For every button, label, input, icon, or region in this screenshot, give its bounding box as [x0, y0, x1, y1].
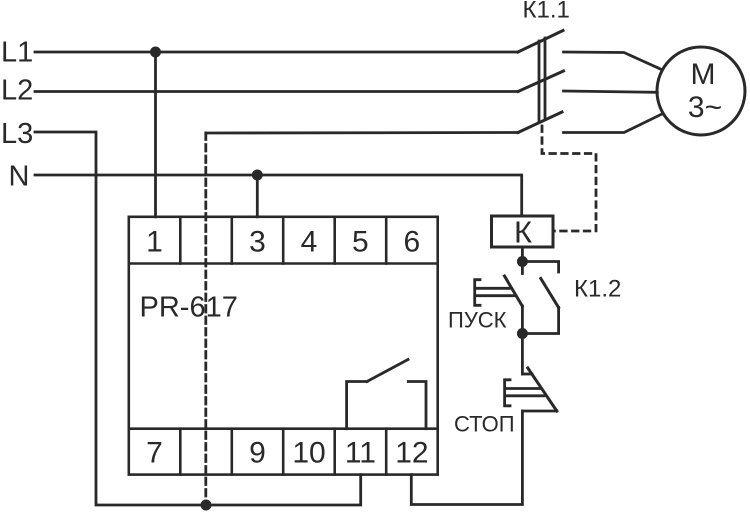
wire pole 2 to motor	[564, 91, 658, 92]
terminal 3	[249, 217, 283, 264]
svg-text:К1.2: К1.2	[574, 276, 621, 303]
wire СТОП down to bottom	[411, 411, 522, 505]
relay PR-617 label	[140, 292, 238, 324]
svg-text:К: К	[514, 215, 532, 250]
svg-text:10: 10	[292, 437, 325, 470]
svg-text:L3: L3	[1, 118, 33, 150]
svg-text:СТОП: СТОП	[454, 412, 515, 437]
terminal 4	[301, 217, 335, 264]
contactor K1.1 pole 1 blade	[518, 31, 563, 53]
svg-text:3~: 3~	[688, 91, 722, 124]
wire pole 3 to motor	[564, 114, 664, 133]
wire node B to СТОП	[521, 334, 524, 375]
coil K letter	[514, 215, 532, 250]
terminal 7	[146, 429, 180, 475]
contact K1.2 top wire	[522, 262, 558, 273]
pushbutton ПУСК blade	[505, 276, 523, 306]
svg-text:N: N	[9, 161, 30, 193]
terminal 6	[404, 226, 421, 259]
contactor K1.1 label	[523, 0, 570, 24]
relay PR-617 outer box	[129, 217, 438, 475]
wire L2	[35, 90, 518, 93]
svg-text:ПУСК: ПУСК	[448, 308, 507, 333]
relay bottom terminal row divider	[129, 427, 438, 430]
net label L2	[1, 75, 33, 107]
dashed link K1.1 to coil K	[542, 126, 596, 231]
node junction bottom	[201, 500, 212, 511]
svg-text:3: 3	[249, 226, 266, 259]
node junction on L1	[150, 47, 161, 58]
contact K1.2 blade	[541, 279, 559, 308]
svg-text:К1.1: К1.1	[523, 0, 570, 24]
terminal 8 (blank)	[231, 429, 234, 475]
wire L3 down left side to bottom	[35, 132, 361, 505]
svg-text:7: 7	[146, 437, 163, 470]
svg-text:5: 5	[352, 226, 369, 259]
pushbutton СТОП (NC) top seat	[522, 373, 532, 376]
motor label 3~	[688, 91, 722, 124]
terminal 11	[345, 429, 386, 475]
svg-text:L1: L1	[1, 37, 33, 69]
terminal 1	[146, 217, 180, 264]
contactor coil K box	[492, 216, 554, 247]
terminal 10	[292, 429, 334, 475]
relay top terminal row divider	[129, 262, 438, 265]
wire N	[35, 175, 522, 216]
contactor K1.1 pole 3 blade	[518, 112, 562, 133]
pushbutton СТОП bottom bar	[522, 410, 556, 413]
motor M1 circle	[657, 47, 745, 135]
label ПУСК	[448, 308, 507, 333]
svg-text:4: 4	[301, 226, 318, 259]
net label L3	[1, 118, 33, 150]
svg-text:9: 9	[249, 437, 266, 470]
label СТОП	[454, 412, 515, 437]
label K1.2	[574, 276, 621, 303]
node junction on N	[252, 170, 263, 181]
internal relay contact 11-12	[347, 360, 426, 429]
pushbutton ПУСК (NO) upper stub	[521, 262, 524, 274]
pushbutton ПУСК actuator	[475, 280, 515, 306]
contactor K1.1 coupling bar	[539, 38, 545, 122]
terminal 9	[249, 429, 283, 475]
wire coil K to node A	[521, 247, 524, 262]
terminal 12	[395, 437, 428, 470]
terminal 5	[352, 217, 386, 264]
wire L1	[35, 51, 518, 54]
terminal 2 (blank)	[231, 217, 234, 264]
dashed pass-through wire	[204, 133, 207, 505]
svg-text:PR-617: PR-617	[140, 292, 238, 324]
contactor K1.1 pole 2 blade	[518, 71, 564, 92]
svg-text:L2: L2	[1, 75, 33, 107]
svg-text:11: 11	[345, 437, 376, 470]
wire phase 3 to contactor	[206, 131, 518, 134]
wire terminal 3 to N	[256, 175, 259, 217]
node A	[517, 256, 528, 267]
net label L1	[1, 37, 33, 69]
net label N	[9, 161, 30, 193]
wire ПУСК to node B	[521, 306, 524, 334]
svg-text:1: 1	[146, 226, 163, 259]
wire pole 1 to motor	[564, 52, 662, 70]
motor label M	[691, 58, 716, 91]
pushbutton СТОП blade	[528, 368, 557, 411]
pushbutton СТОП actuator	[505, 380, 544, 406]
svg-text:6: 6	[404, 226, 421, 259]
node B	[517, 328, 528, 339]
svg-text:12: 12	[395, 437, 428, 470]
wire terminal 1 to L1	[154, 52, 157, 217]
wire K1.2 to node B	[522, 308, 558, 334]
svg-text:М: М	[691, 58, 716, 91]
